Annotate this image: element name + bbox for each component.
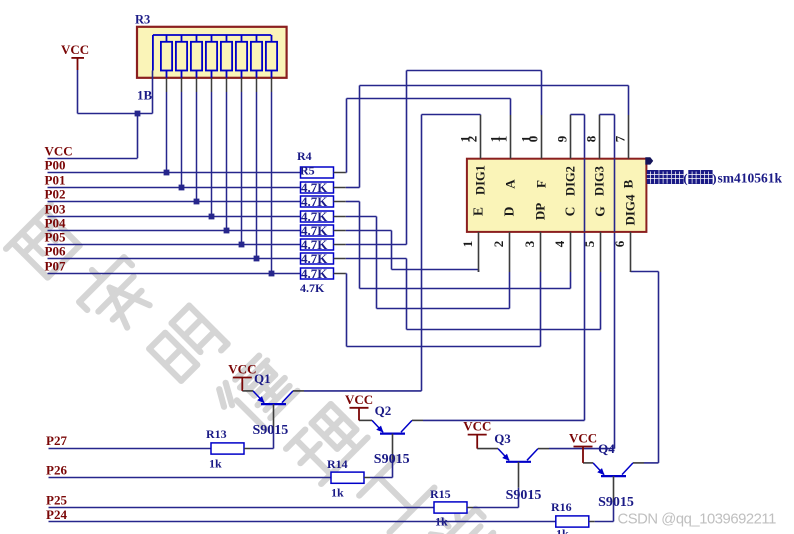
svg-text:R14: R14 — [327, 457, 348, 471]
svg-text:R13: R13 — [206, 427, 227, 441]
svg-text:VCC: VCC — [228, 362, 256, 377]
svg-text:P01: P01 — [45, 172, 66, 187]
svg-text:4.7K: 4.7K — [301, 237, 328, 252]
svg-text:R15: R15 — [430, 487, 451, 501]
svg-text:F: F — [534, 180, 549, 188]
svg-text:CSDN @qq_1039692211: CSDN @qq_1039692211 — [618, 512, 777, 528]
svg-text:8: 8 — [584, 135, 599, 142]
svg-text:VCC: VCC — [61, 42, 89, 57]
svg-text:VCC: VCC — [45, 143, 73, 158]
svg-text:4.7K: 4.7K — [301, 180, 328, 195]
svg-text:DP: DP — [533, 203, 548, 220]
svg-text:P05: P05 — [45, 229, 66, 244]
svg-text:9: 9 — [555, 135, 570, 142]
svg-text:P26: P26 — [46, 463, 67, 478]
svg-text:1k: 1k — [331, 486, 344, 500]
svg-text:P04: P04 — [45, 215, 66, 230]
svg-text:Q4: Q4 — [598, 441, 615, 456]
svg-text:VCC: VCC — [569, 431, 597, 446]
svg-text:D: D — [502, 206, 517, 216]
svg-text:DIG4: DIG4 — [623, 194, 638, 226]
svg-text:sm410561k: sm410561k — [718, 171, 783, 186]
svg-text:P03: P03 — [45, 201, 66, 216]
svg-text:5: 5 — [582, 240, 597, 247]
svg-text:4: 4 — [552, 240, 567, 247]
svg-text:2: 2 — [491, 241, 506, 248]
svg-text:VCC: VCC — [345, 392, 373, 407]
svg-text:DIG2: DIG2 — [564, 166, 578, 196]
svg-text:0: 0 — [526, 136, 541, 143]
svg-text:4.7K: 4.7K — [301, 194, 328, 209]
svg-text:2: 2 — [465, 136, 480, 143]
svg-text:6: 6 — [612, 240, 627, 247]
svg-text:4.7K: 4.7K — [301, 223, 328, 238]
svg-text:DIG1: DIG1 — [474, 165, 488, 195]
svg-text:R4: R4 — [297, 149, 312, 163]
svg-text:4.7K: 4.7K — [301, 209, 328, 224]
svg-text:1: 1 — [495, 136, 510, 143]
svg-text:DIG3: DIG3 — [593, 166, 607, 196]
svg-text:S9015: S9015 — [374, 452, 410, 467]
svg-text:R5: R5 — [300, 164, 315, 178]
svg-text:R16: R16 — [551, 500, 572, 514]
svg-text:3: 3 — [522, 240, 537, 247]
svg-text:1k: 1k — [556, 527, 569, 534]
svg-text:G: G — [593, 206, 608, 217]
svg-text:4.7K: 4.7K — [300, 281, 325, 295]
svg-text:): ) — [712, 171, 716, 186]
svg-text:P24: P24 — [46, 507, 67, 522]
svg-text:1: 1 — [460, 241, 475, 248]
svg-text:P02: P02 — [45, 186, 66, 201]
svg-text:S9015: S9015 — [506, 488, 542, 503]
svg-text:Q2: Q2 — [375, 403, 392, 418]
svg-text:E: E — [471, 207, 486, 216]
svg-text:S9015: S9015 — [253, 423, 289, 438]
svg-text:1B: 1B — [137, 88, 153, 103]
svg-text:B: B — [621, 179, 636, 188]
svg-text:Q1: Q1 — [254, 371, 271, 386]
svg-text:A: A — [503, 179, 518, 189]
svg-text:P25: P25 — [46, 493, 67, 508]
svg-text:1k: 1k — [209, 457, 222, 471]
svg-text:4.7K: 4.7K — [301, 266, 328, 281]
svg-text:S9015: S9015 — [598, 495, 634, 510]
svg-text:(: ( — [683, 171, 687, 186]
svg-text:4.7K: 4.7K — [301, 251, 328, 266]
svg-text:Q3: Q3 — [494, 431, 511, 446]
svg-text:VCC: VCC — [463, 419, 491, 434]
svg-text:P27: P27 — [46, 433, 67, 448]
svg-text:P07: P07 — [45, 258, 66, 273]
svg-text:P06: P06 — [45, 243, 66, 258]
svg-text:P00: P00 — [45, 157, 66, 172]
svg-text:C: C — [563, 207, 578, 217]
svg-text:R3: R3 — [135, 13, 150, 27]
svg-text:7: 7 — [613, 135, 628, 142]
